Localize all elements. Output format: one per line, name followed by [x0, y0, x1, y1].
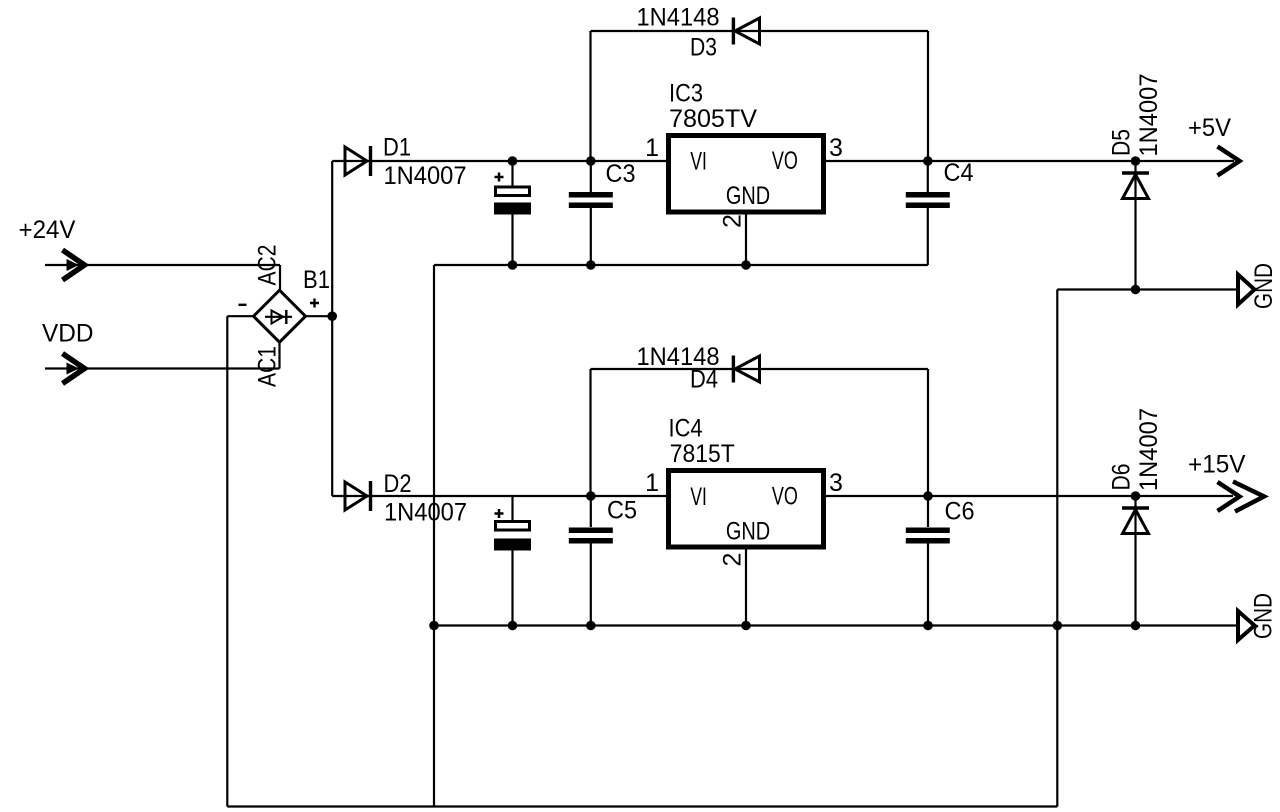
- svg-text:2: 2: [719, 553, 747, 567]
- port GND bottom: [1238, 593, 1278, 640]
- wire D4 left leg: [589, 369, 591, 496]
- wire D3 top: [591, 30, 929, 32]
- svg-text:3: 3: [829, 469, 843, 497]
- junction elco2 bottom: [508, 621, 518, 631]
- wire elco2 top lead: [511, 496, 513, 521]
- diode D6 1N4007: [1108, 408, 1164, 534]
- junction D5 anode rail: [1131, 156, 1141, 166]
- wire gnd vertical x1057: [1056, 290, 1058, 807]
- wire top gnd rail: [434, 264, 928, 266]
- wire bridge minus lead: [227, 315, 253, 317]
- svg-text:1N4148: 1N4148: [637, 4, 720, 32]
- wire gnd vertical x434: [433, 265, 435, 807]
- junction B1 plus node: [327, 311, 337, 321]
- port +5V: [1188, 114, 1240, 176]
- svg-text:VO: VO: [772, 147, 798, 175]
- junction D6 cathode gnd: [1131, 621, 1141, 631]
- diode D2 1N4007: [345, 470, 467, 527]
- polarized capacitor top: [494, 173, 531, 215]
- diode D5 1N4007: [1108, 74, 1164, 199]
- svg-text:GND: GND: [726, 518, 770, 546]
- svg-text:VI: VI: [690, 148, 707, 176]
- svg-text:C4: C4: [944, 159, 974, 187]
- svg-text:GND: GND: [726, 182, 770, 210]
- wire bridge plus lead: [306, 315, 333, 317]
- svg-text:C5: C5: [607, 497, 637, 525]
- junction C3 top: [586, 156, 596, 166]
- wire C6 bottom lead: [927, 543, 929, 626]
- junction elco1 top: [508, 156, 518, 166]
- wire D4 right leg: [927, 369, 929, 496]
- wire top rail VO to +5V: [826, 160, 1234, 162]
- junction C6 top: [923, 491, 933, 501]
- svg-text:1N4007: 1N4007: [384, 499, 467, 527]
- svg-text:7805TV: 7805TV: [669, 105, 757, 133]
- svg-text:2: 2: [719, 214, 747, 228]
- wire +24V lead: [45, 264, 280, 266]
- junction D6 anode rail: [1131, 491, 1141, 501]
- wire lower gnd rail: [434, 624, 1238, 626]
- capacitor C5: [569, 497, 637, 544]
- svg-text:VI: VI: [690, 483, 707, 511]
- wire bottom ground bus: [227, 805, 1057, 807]
- wire left ground vertical: [226, 316, 228, 806]
- junction C3 bottom: [586, 260, 596, 270]
- wire C4 top lead: [927, 161, 929, 192]
- bridge rectifier B1: [239, 245, 331, 388]
- svg-text:3: 3: [829, 134, 843, 162]
- wire D4 top: [591, 368, 929, 370]
- wire VDD lead: [45, 367, 280, 369]
- wire IC3 gnd pin: [745, 214, 747, 265]
- regulator IC3 7805TV: [645, 80, 843, 229]
- svg-text:IC3: IC3: [669, 80, 703, 108]
- wire D5 stem: [1134, 161, 1136, 290]
- junction gnd rail x1057: [1053, 621, 1063, 631]
- wire elco1 bottom lead: [511, 214, 513, 265]
- wire C3 bottom lead: [590, 208, 592, 265]
- wire C4 bottom lead: [927, 208, 929, 265]
- capacitor C3: [569, 160, 636, 208]
- wire AC1 vertical: [278, 342, 280, 368]
- port GND top: [1238, 263, 1278, 309]
- wire AC2 vertical: [279, 265, 281, 290]
- svg-text:C6: C6: [945, 498, 975, 526]
- svg-text:D6: D6: [1108, 464, 1136, 491]
- regulator IC4 7815T: [645, 415, 843, 567]
- junction C5 bottom: [586, 621, 596, 631]
- svg-text:7815T: 7815T: [670, 440, 735, 468]
- svg-text:AC1: AC1: [254, 346, 282, 387]
- junction C5 top: [586, 491, 596, 501]
- port +24V: [19, 216, 85, 280]
- wire C5 bottom lead: [590, 543, 592, 626]
- svg-text:1N4007: 1N4007: [384, 162, 467, 190]
- diode D4 1N4148: [637, 343, 760, 394]
- svg-text:GND: GND: [1250, 263, 1278, 309]
- junction D5 cathode gnd: [1131, 285, 1141, 295]
- wire D2 rail: [332, 495, 666, 497]
- junction elco1 bottom: [508, 260, 518, 270]
- svg-text:D4: D4: [690, 366, 718, 394]
- wire IC4 gnd pin: [745, 549, 747, 626]
- svg-text:1N4007: 1N4007: [1135, 408, 1163, 491]
- svg-text:D3: D3: [690, 34, 717, 62]
- svg-text:+24V: +24V: [19, 216, 76, 244]
- junction C6 bottom: [923, 621, 933, 631]
- svg-text:VDD: VDD: [42, 320, 94, 348]
- wire D3 right leg: [927, 31, 929, 161]
- diode D1 1N4007: [345, 134, 467, 191]
- svg-text:1: 1: [645, 134, 659, 162]
- capacitor C4: [906, 159, 974, 208]
- svg-text:D2: D2: [384, 470, 412, 498]
- svg-text:+15V: +15V: [1188, 451, 1246, 479]
- junction gnd rail x434: [429, 621, 439, 631]
- wire C5 top lead: [590, 496, 592, 527]
- wire D6 stem: [1134, 496, 1136, 626]
- svg-text:D5: D5: [1108, 129, 1136, 156]
- svg-text:C3: C3: [606, 160, 636, 188]
- svg-text:D1: D1: [383, 134, 411, 162]
- wire elco2 bottom lead: [511, 550, 513, 626]
- svg-text:1: 1: [645, 469, 659, 497]
- svg-text:1N4007: 1N4007: [1135, 74, 1163, 157]
- svg-text:+5V: +5V: [1188, 114, 1231, 142]
- svg-text:AC2: AC2: [254, 245, 282, 286]
- capacitor C6: [906, 498, 975, 544]
- port VDD: [42, 320, 94, 384]
- port +15V: [1188, 451, 1264, 512]
- svg-text:VO: VO: [772, 483, 798, 511]
- junction IC4 gnd: [741, 621, 751, 631]
- svg-text:B1: B1: [303, 266, 330, 294]
- diode D3 1N4148: [637, 4, 760, 62]
- wire top GND port lead: [1057, 288, 1238, 290]
- svg-text:GND: GND: [1250, 593, 1278, 639]
- junction IC3 gnd: [741, 260, 751, 270]
- svg-text:IC4: IC4: [669, 415, 703, 443]
- wire top rail VI: [332, 160, 666, 162]
- junction C4 top: [923, 156, 933, 166]
- wire C6 top lead: [927, 496, 929, 527]
- wire bottom rail VO to +15V: [826, 495, 1233, 497]
- wire D3 left leg: [589, 31, 591, 161]
- wire B1 plus vertical: [331, 161, 333, 496]
- wire elco1 top lead: [511, 161, 513, 186]
- wire C3 top lead: [590, 161, 592, 192]
- polarized capacitor bottom: [494, 509, 531, 551]
